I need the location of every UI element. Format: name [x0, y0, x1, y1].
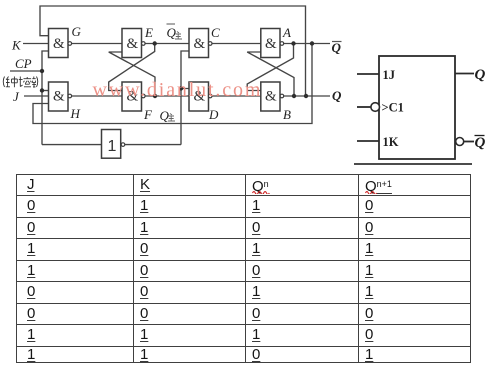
- svg-text:Q: Q: [167, 25, 177, 40]
- svg-text:CP: CP: [15, 56, 32, 71]
- svg-text:D: D: [208, 107, 219, 122]
- svg-text:A: A: [282, 25, 291, 40]
- svg-text:Q: Q: [332, 40, 342, 55]
- svg-text:E: E: [144, 25, 153, 40]
- svg-text:H: H: [70, 106, 81, 121]
- svg-text:Q: Q: [475, 135, 486, 151]
- svg-text:1J: 1J: [383, 68, 396, 82]
- svg-text:F: F: [143, 107, 153, 122]
- svg-text:&: &: [265, 89, 277, 105]
- svg-text:www.dianlut.com: www.dianlut.com: [93, 79, 263, 101]
- svg-text:>C1: >C1: [382, 101, 404, 115]
- svg-text:Q: Q: [332, 88, 342, 103]
- svg-text:&: &: [53, 89, 65, 105]
- svg-text:Q: Q: [475, 67, 486, 83]
- svg-text:1: 1: [108, 138, 117, 155]
- svg-text:G: G: [72, 24, 82, 39]
- svg-text:&: &: [127, 36, 139, 52]
- svg-text:J: J: [13, 89, 20, 104]
- svg-text:K: K: [11, 38, 22, 53]
- svg-text:C: C: [211, 25, 220, 40]
- svg-text:1K: 1K: [383, 135, 399, 149]
- svg-text:&: &: [53, 36, 65, 52]
- svg-text:&: &: [194, 36, 206, 52]
- svg-text:&: &: [265, 36, 277, 52]
- svg-text:B: B: [283, 107, 291, 122]
